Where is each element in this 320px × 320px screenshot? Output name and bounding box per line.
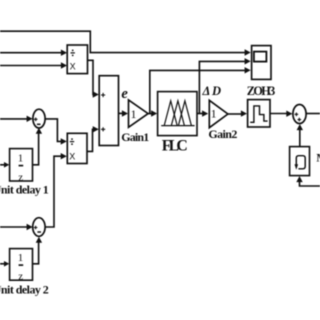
FLC block <box>158 92 197 136</box>
wire: ZOH3 output to Sum3 <box>270 111 292 117</box>
scope block <box>252 46 271 80</box>
divide block Divide2 <box>67 133 87 163</box>
wire: feedback from right edge into Memory <box>296 176 320 186</box>
svg-text:Unit delay 2: Unit delay 2 <box>0 283 49 297</box>
wire: input to UnitDelay1 <box>0 162 9 168</box>
svg-text:e: e <box>121 86 128 102</box>
memory block M <box>290 147 310 176</box>
wire: FLC output to Gain2 <box>197 110 208 116</box>
wire: Sum1 output to Divide2 numerator <box>45 119 67 145</box>
unit delay block Unit delay 2 <box>10 249 33 283</box>
svg-text:1: 1 <box>18 152 24 164</box>
svg-text:FLC: FLC <box>162 138 188 155</box>
wire: Memory output up to Sum3 <box>297 124 303 146</box>
svg-text:1: 1 <box>211 107 217 121</box>
svg-text:X: X <box>70 62 76 72</box>
wire: numerator input to Divide1 <box>0 50 67 56</box>
wire: Gain2 output to ZOH3 <box>228 110 247 116</box>
svg-text:1: 1 <box>131 107 137 121</box>
wire: input to Sum2 <box>0 224 33 230</box>
wire: Gain1 output to FLC <box>148 110 157 116</box>
wire: Add output to Gain1 <box>119 110 129 116</box>
svg-text:Unit delay 1: Unit delay 1 <box>0 182 49 196</box>
zero-order hold block ZOH3 <box>248 100 270 127</box>
wire: Sum3 output to right edge <box>306 113 320 115</box>
wire: top input line routed to scope input 1 <box>0 31 251 56</box>
wire: Sum2 output to Divide2 denominator <box>45 153 67 227</box>
svg-text:M: M <box>316 150 320 164</box>
sum block Add1 <box>99 76 118 146</box>
svg-text:Gain1: Gain1 <box>121 130 149 144</box>
wire: Divide1 output to Add input 1 <box>88 60 99 97</box>
sum Sum3 <box>293 105 306 124</box>
sum Sum1 <box>33 109 45 128</box>
gain Gain2 <box>209 100 228 127</box>
svg-text:Gain2: Gain2 <box>208 127 237 141</box>
wire: UnitDelay2 output up to Sum2 <box>33 237 43 264</box>
wire: delta-D tap up to scope input 2 <box>199 61 244 113</box>
wire: Divide2 output to Add input 2 <box>87 126 99 151</box>
gain Gain1 <box>129 100 149 127</box>
unit delay block Unit delay 1 <box>10 149 33 184</box>
svg-text:ΔD: ΔD <box>202 84 222 98</box>
wire: input to UnitDelay2 <box>0 261 9 267</box>
wire: denominator input to Divide1 <box>0 62 67 68</box>
wire: UnitDelay1 output up to Sum1 <box>33 128 43 165</box>
divide block Divide1 <box>67 45 87 74</box>
svg-text:z: z <box>18 271 23 282</box>
svg-text:ZOH3: ZOH3 <box>247 84 276 98</box>
wire: e tap up to scope input 3 <box>150 70 245 113</box>
svg-text:1: 1 <box>18 252 24 264</box>
sum Sum2 <box>33 218 45 237</box>
wire: input to Sum1 <box>0 116 33 122</box>
svg-text:X: X <box>69 151 75 161</box>
